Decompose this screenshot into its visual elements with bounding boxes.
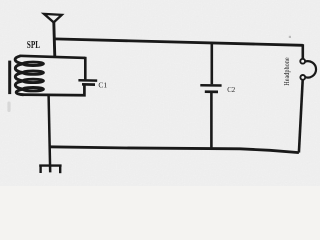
smudge left edge: [7, 102, 10, 113]
capacitor C1 bottom plate: [82, 83, 95, 86]
paper background: [0, 0, 320, 186]
svg-text:C2: C2: [227, 85, 235, 94]
wire C2 top lead: [211, 43, 214, 84]
svg-text:C1: C1: [98, 80, 107, 89]
inductor SPL coil turns: [15, 56, 43, 95]
antenna: [44, 14, 62, 23]
wire C2 bottom lead: [210, 92, 213, 150]
paper speckle texture: [0, 0, 320, 186]
capacitor C2 top plate: [200, 84, 221, 87]
wire antenna drop to tank top: [54, 22, 55, 57]
wire top rail: [54, 39, 303, 45]
ground: [39, 166, 61, 174]
wire tank right vertical: [84, 57, 87, 80]
wire headphone bottom lead: [299, 80, 303, 153]
wire tank top: [20, 56, 86, 58]
capacitor C1 top plate: [78, 79, 97, 82]
headphone terminal circle top: [300, 59, 305, 64]
wire C1 bottom lead and tank bottom: [21, 84, 85, 95]
svg-text:SPL: SPL: [27, 40, 40, 51]
speck near top right: [289, 36, 291, 38]
wire headphone top lead: [301, 44, 304, 59]
wire bottom rail: [49, 147, 299, 153]
inductor SPL core bar: [8, 61, 11, 95]
svg-text:Headphone: Headphone: [282, 57, 291, 86]
headphone arc: [305, 61, 316, 77]
capacitor C2 bottom plate: [205, 90, 218, 93]
headphone terminal circle bottom: [300, 75, 305, 80]
wire ground drop: [49, 95, 51, 172]
